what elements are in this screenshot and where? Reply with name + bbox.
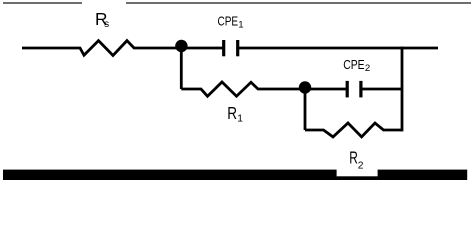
svg-text:R: R <box>227 103 237 123</box>
svg-text:1: 1 <box>237 114 243 125</box>
svg-text:CPE: CPE <box>218 14 239 29</box>
svg-text:R: R <box>349 147 358 167</box>
svg-text:1: 1 <box>238 19 243 30</box>
svg-text:2: 2 <box>358 160 364 171</box>
svg-text:s: s <box>104 19 109 30</box>
svg-text:2: 2 <box>365 63 370 74</box>
svg-text:CPE: CPE <box>343 57 365 72</box>
